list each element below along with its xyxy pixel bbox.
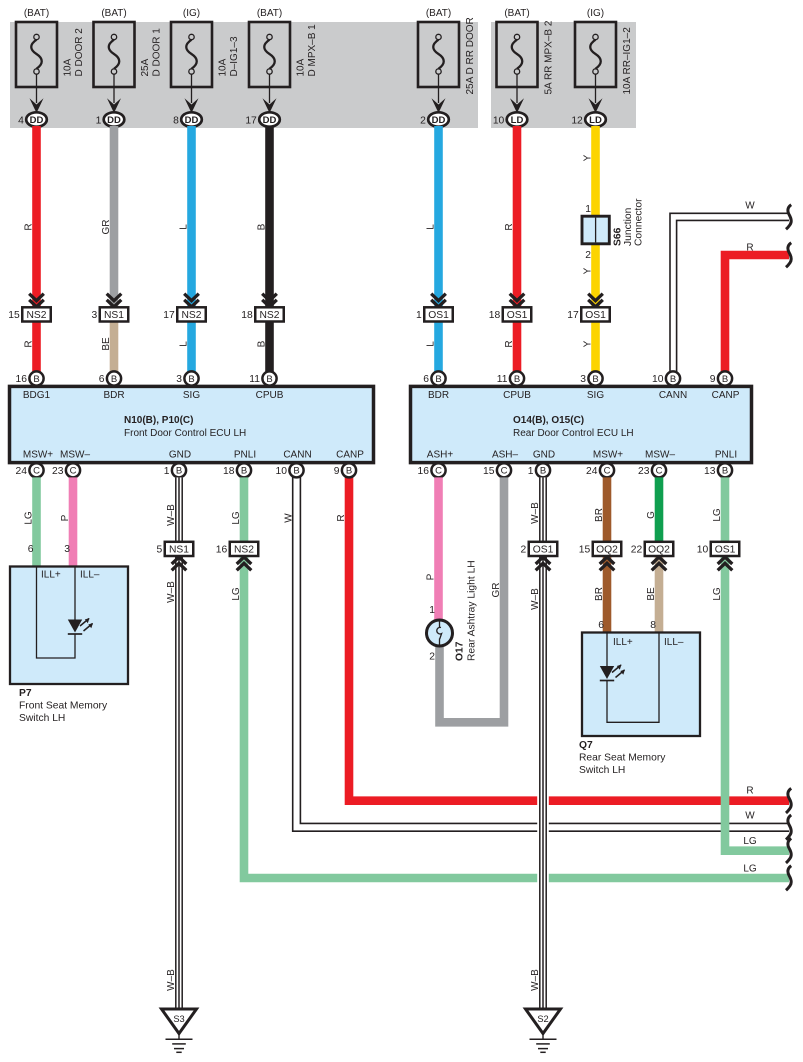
svg-text:Front Seat Memory: Front Seat Memory: [19, 701, 108, 712]
wire R from LD pin 10 to OS1: [513, 126, 522, 307]
svg-text:Y: Y: [583, 154, 594, 161]
wire R from DD pin 4 to NS2: [32, 126, 41, 307]
rear door control ECU O14/O15: [411, 386, 752, 462]
svg-text:LD: LD: [589, 115, 602, 126]
svg-text:15: 15: [483, 466, 495, 477]
svg-text:18: 18: [489, 310, 501, 321]
fuse 10A RR-IG1-2: [575, 8, 633, 95]
svg-text:PNLI: PNLI: [234, 450, 256, 461]
svg-text:17: 17: [163, 310, 175, 321]
svg-text:ILL–: ILL–: [80, 570, 100, 581]
svg-text:10A: 10A: [296, 58, 307, 76]
connector DD pin 17: [245, 112, 279, 126]
arrow from fuse 10A RR-IG1-2 to connector: [589, 74, 603, 113]
svg-text:1: 1: [528, 466, 534, 477]
front ECU pin 1 B GND: [164, 463, 186, 477]
switch Q7 Rear Seat Memory Switch LH: [582, 620, 700, 736]
svg-text:LD: LD: [511, 115, 524, 126]
svg-text:15: 15: [579, 545, 591, 556]
front ECU pin 6 B BDR: [99, 371, 121, 385]
fuse 10A D MPX-B 1: [249, 8, 318, 87]
svg-text:2: 2: [585, 250, 591, 261]
S66 label: [613, 198, 645, 246]
rear ECU pin 1 B GND: [528, 463, 550, 477]
svg-text:1: 1: [429, 605, 435, 616]
svg-text:C: C: [604, 466, 611, 477]
svg-text:11: 11: [497, 374, 508, 385]
svg-text:B: B: [670, 374, 676, 385]
svg-text:BDG1: BDG1: [23, 390, 51, 401]
page connector squiggle W: [786, 815, 791, 840]
front door control ECU N10/P10: [10, 386, 374, 462]
wire junction chevrons: [237, 557, 252, 570]
LED symbol in P7: [68, 620, 82, 633]
arrow from fuse 10A D MPX-B 1 to connector: [263, 74, 277, 113]
front ECU pin 3 B SIG: [176, 371, 198, 385]
wire W from front ECU CANN to right edge: [293, 477, 789, 831]
wire BR from OQ2 to Q7 pin 6: [603, 555, 612, 633]
page connector squiggle LG: [786, 866, 791, 891]
svg-text:N10(B), P10(C): N10(B), P10(C): [124, 415, 193, 426]
connector DD pin 2: [420, 112, 449, 126]
wire LG from front ECU MSW+ to P7 pin 6: [32, 477, 41, 567]
svg-text:S2: S2: [537, 1014, 548, 1024]
svg-text:W: W: [745, 811, 755, 822]
svg-text:W: W: [745, 201, 755, 212]
svg-text:W–B: W–B: [530, 502, 541, 524]
wire junction chevrons: [600, 557, 615, 570]
svg-text:D–IG1–3: D–IG1–3: [229, 36, 240, 76]
svg-text:NS2: NS2: [181, 310, 201, 321]
svg-text:R: R: [746, 243, 753, 254]
svg-text:8: 8: [173, 115, 179, 126]
svg-text:Switch LH: Switch LH: [19, 713, 65, 724]
svg-text:16: 16: [418, 466, 430, 477]
svg-text:11: 11: [249, 374, 260, 385]
svg-text:BE: BE: [101, 337, 112, 351]
svg-text:CANP: CANP: [712, 390, 740, 401]
svg-text:MSW+: MSW+: [23, 450, 53, 461]
svg-text:Switch LH: Switch LH: [579, 765, 625, 776]
wire W-B from rear ECU GND to OS1: [537, 477, 549, 542]
wire junction chevrons: [510, 294, 525, 307]
wire BE from OQ2 to Q7 pin 8: [655, 555, 664, 633]
svg-text:6: 6: [28, 544, 34, 555]
wire LG from front PNLI to NS2: [240, 477, 249, 542]
wire R from front ECU CANP to right edge: [349, 477, 789, 801]
svg-text:Rear Seat Memory: Rear Seat Memory: [579, 753, 666, 764]
fuse 25A D RR DOOR: [418, 8, 476, 95]
svg-text:L: L: [179, 341, 190, 347]
svg-text:Rear Ashtray Light LH: Rear Ashtray Light LH: [467, 560, 478, 661]
svg-text:22: 22: [631, 545, 643, 556]
svg-text:CANP: CANP: [336, 450, 364, 461]
fuse 10A D DOOR 2: [16, 8, 85, 87]
svg-text:OS1: OS1: [533, 545, 554, 556]
connector DD pin 8: [173, 112, 202, 126]
svg-text:6: 6: [598, 620, 604, 631]
svg-text:(BAT): (BAT): [101, 8, 126, 19]
front ECU pin 9 B CANP: [334, 463, 356, 477]
svg-text:OS1: OS1: [585, 310, 606, 321]
front ECU pin 23 C MSW-: [52, 463, 80, 477]
wire L from OS1 to rear ECU BDR: [434, 322, 443, 373]
wire junction chevrons: [262, 294, 277, 307]
svg-text:8: 8: [650, 620, 656, 631]
svg-text:2: 2: [420, 115, 426, 126]
svg-text:Front Door Control ECU LH: Front Door Control ECU LH: [124, 428, 246, 439]
svg-text:25A: 25A: [140, 58, 151, 76]
svg-text:B: B: [111, 374, 117, 385]
junction connector S66: [582, 216, 609, 244]
fuse 25A D DOOR 1: [94, 8, 163, 87]
svg-text:W–B: W–B: [166, 581, 177, 603]
svg-text:B: B: [540, 466, 546, 477]
svg-text:B: B: [293, 466, 299, 477]
connector OQ2 pin 22: [631, 542, 673, 556]
svg-text:GND: GND: [169, 450, 191, 461]
svg-text:18: 18: [241, 310, 253, 321]
svg-text:3: 3: [580, 374, 586, 385]
svg-text:B: B: [241, 466, 247, 477]
svg-text:O17: O17: [455, 641, 466, 661]
svg-text:LG: LG: [24, 511, 35, 525]
wire P from front ECU MSW- to P7 pin 3: [69, 477, 78, 567]
arrow from fuse 25A D DOOR 1 to connector: [107, 74, 121, 113]
svg-text:R: R: [24, 340, 35, 347]
arrow from fuse 25A D RR DOOR to connector: [432, 74, 446, 113]
page connector squiggle LG: [786, 838, 791, 863]
svg-text:23: 23: [52, 466, 64, 477]
wire GR from rear ECU ASH- to bulb O17 pin 2: [440, 477, 505, 722]
connector DD pin 1: [96, 112, 125, 126]
rear ECU pin 10 B CANN: [652, 371, 680, 385]
svg-text:R: R: [24, 223, 35, 230]
wire junction chevrons: [536, 557, 551, 570]
svg-text:B: B: [722, 466, 728, 477]
svg-text:W–B: W–B: [530, 969, 541, 991]
rear ECU pin 9 B CANP: [710, 371, 732, 385]
svg-text:4: 4: [18, 115, 24, 126]
svg-text:24: 24: [586, 466, 598, 477]
svg-text:6: 6: [99, 374, 105, 385]
rear ECU pin 23 C MSW-: [638, 463, 666, 477]
arrow from fuse 10A D DOOR 2 to connector: [30, 74, 44, 113]
svg-text:NS1: NS1: [104, 310, 124, 321]
svg-text:1: 1: [164, 466, 170, 477]
svg-text:GND: GND: [533, 450, 555, 461]
svg-text:W–B: W–B: [530, 588, 541, 610]
wire junction chevrons: [431, 294, 446, 307]
wire LG from front ECU PNLI down and to right edge: [244, 555, 789, 878]
connector LD pin 10: [493, 112, 527, 126]
svg-text:12: 12: [571, 115, 583, 126]
connector NS2 pin 18: [241, 307, 283, 321]
svg-text:10: 10: [652, 374, 664, 385]
svg-text:C: C: [435, 466, 442, 477]
svg-text:B: B: [266, 374, 272, 385]
wire R from OS1 to rear ECU CPUB: [513, 322, 522, 373]
svg-text:24: 24: [16, 466, 28, 477]
svg-text:BE: BE: [646, 587, 657, 601]
front ECU pin 11 B CPUB: [249, 371, 276, 385]
svg-text:B: B: [257, 223, 268, 230]
rear ECU pin 15 C ASH-: [483, 463, 511, 477]
svg-text:SIG: SIG: [587, 390, 604, 401]
ground S2: [526, 1009, 561, 1052]
svg-text:LG: LG: [743, 836, 757, 847]
page connector squiggle R: [786, 243, 791, 268]
svg-text:MSW–: MSW–: [645, 450, 675, 461]
wire P from rear ECU ASH+ to bulb O17 pin 1: [434, 477, 443, 621]
svg-text:(BAT): (BAT): [257, 8, 282, 19]
svg-text:3: 3: [92, 310, 98, 321]
svg-text:ILL–: ILL–: [664, 637, 684, 648]
svg-text:DD: DD: [263, 115, 277, 126]
svg-text:C: C: [656, 466, 663, 477]
LED symbol in Q7: [600, 666, 614, 679]
svg-text:17: 17: [245, 115, 257, 126]
rear ECU pin 24 C MSW+: [586, 463, 614, 477]
wire L from DD pin 2 to OS1: [434, 126, 443, 307]
wire W-B from front ECU GND to NS1: [173, 477, 185, 542]
rear ECU pin 13 B PNLI: [704, 463, 732, 477]
svg-text:ILL+: ILL+: [613, 637, 633, 648]
svg-text:16: 16: [216, 545, 228, 556]
connector LD pin 12: [571, 112, 605, 126]
svg-text:23: 23: [638, 466, 650, 477]
svg-text:P7: P7: [19, 688, 32, 699]
svg-text:NS2: NS2: [234, 545, 254, 556]
wire W from right edge to rear ECU CANN: [670, 213, 789, 374]
svg-text:DD: DD: [432, 115, 446, 126]
wire GR from DD pin 1 to NS1: [110, 126, 119, 307]
connector NS1 pin 3: [92, 307, 129, 321]
connector OS1 pin 1: [416, 307, 453, 321]
rear ECU pin 11 B CPUB: [497, 371, 524, 385]
connector NS1 pin 5: [157, 542, 194, 556]
rear ECU pin 3 B SIG: [580, 371, 602, 385]
svg-text:PNLI: PNLI: [715, 450, 737, 461]
svg-text:W: W: [284, 513, 295, 523]
svg-text:C: C: [70, 466, 77, 477]
svg-text:CANN: CANN: [659, 390, 687, 401]
wire junction chevrons: [29, 294, 44, 307]
connector OQ2 pin 15: [579, 542, 621, 556]
wire W-B from OS1 to ground S2: [537, 555, 549, 1009]
svg-text:LG: LG: [231, 587, 242, 601]
svg-text:3: 3: [176, 374, 182, 385]
svg-text:C: C: [33, 466, 40, 477]
svg-text:9: 9: [334, 466, 340, 477]
wire LG from rear ECU PNLI down and to right edge: [725, 555, 789, 851]
svg-text:17: 17: [567, 310, 579, 321]
svg-text:2: 2: [521, 545, 527, 556]
svg-text:L: L: [179, 224, 190, 230]
svg-text:Rear Door Control ECU LH: Rear Door Control ECU LH: [513, 428, 634, 439]
svg-text:BR: BR: [594, 508, 605, 522]
svg-text:B: B: [188, 374, 194, 385]
wire Y from OS1 to rear ECU SIG: [591, 322, 600, 373]
svg-text:1: 1: [585, 204, 591, 215]
svg-text:Y: Y: [583, 267, 594, 274]
svg-text:OQ2: OQ2: [596, 545, 618, 556]
svg-text:2: 2: [429, 652, 435, 663]
wire B from DD pin 17 to NS2: [265, 126, 274, 307]
front ECU pin 10 B CANN: [276, 463, 304, 477]
svg-text:5: 5: [157, 545, 163, 556]
svg-text:DD: DD: [185, 115, 199, 126]
svg-text:10: 10: [493, 115, 505, 126]
svg-text:L: L: [426, 341, 437, 347]
svg-text:OS1: OS1: [715, 545, 736, 556]
svg-text:10A: 10A: [218, 58, 229, 76]
svg-text:13: 13: [704, 466, 716, 477]
svg-text:LG: LG: [743, 864, 757, 875]
arrow from fuse 5A RR MPX-B 2 to connector: [510, 74, 524, 113]
svg-text:S3: S3: [173, 1014, 184, 1024]
svg-text:B: B: [435, 374, 441, 385]
connector NS2 pin 15: [8, 307, 50, 321]
fuse block band left: [10, 22, 478, 128]
svg-text:R: R: [336, 514, 347, 521]
svg-text:C: C: [501, 466, 508, 477]
rear ECU pin 6 B BDR: [423, 371, 445, 385]
svg-text:CPUB: CPUB: [503, 390, 531, 401]
front ECU pin 16 B BDG1: [16, 371, 44, 385]
arrow from fuse 10A D-IG1-3 to connector: [185, 74, 199, 113]
svg-text:P: P: [426, 573, 437, 580]
svg-text:CPUB: CPUB: [256, 390, 284, 401]
svg-text:R: R: [504, 340, 515, 347]
svg-text:(BAT): (BAT): [504, 8, 529, 19]
svg-text:OS1: OS1: [507, 310, 528, 321]
svg-text:MSW–: MSW–: [60, 450, 90, 461]
svg-text:10: 10: [276, 466, 288, 477]
svg-text:B: B: [33, 374, 39, 385]
svg-text:NS2: NS2: [259, 310, 279, 321]
svg-text:OS1: OS1: [428, 310, 449, 321]
rear ECU pin 16 C ASH+: [418, 463, 446, 477]
svg-text:B: B: [722, 374, 728, 385]
connector OS1 pin 2: [521, 542, 558, 556]
connector NS2 pin 16: [216, 542, 258, 556]
wire BE from NS1 to front ECU BDR: [110, 322, 119, 373]
wire junction chevrons: [718, 557, 733, 570]
svg-text:B: B: [346, 466, 352, 477]
svg-text:BDR: BDR: [428, 390, 449, 401]
svg-text:15: 15: [8, 310, 20, 321]
svg-text:L: L: [426, 224, 437, 230]
svg-text:BR: BR: [594, 587, 605, 601]
svg-text:MSW+: MSW+: [593, 450, 623, 461]
svg-text:6: 6: [423, 374, 429, 385]
connector NS2 pin 17: [163, 307, 205, 321]
svg-text:LG: LG: [712, 587, 723, 601]
wire LG from rear PNLI to OS1: [721, 477, 730, 542]
svg-text:DD: DD: [107, 115, 121, 126]
svg-text:16: 16: [16, 374, 28, 385]
svg-text:5A RR MPX–B 2: 5A RR MPX–B 2: [544, 20, 555, 94]
svg-text:1: 1: [416, 310, 422, 321]
wire G from rear ECU MSW- to OQ2: [655, 477, 664, 542]
svg-text:GR: GR: [101, 220, 112, 235]
svg-text:S66: S66: [613, 227, 624, 246]
fuse 10A D-IG1-3: [171, 8, 240, 87]
svg-text:GR: GR: [491, 583, 502, 598]
svg-text:10A RR–IG1–2: 10A RR–IG1–2: [622, 27, 633, 95]
svg-text:G: G: [646, 511, 657, 519]
svg-text:DD: DD: [30, 115, 44, 126]
svg-text:R: R: [746, 786, 753, 797]
switch P7 Front Seat Memory Switch LH: [10, 544, 128, 684]
svg-text:D DOOR 2: D DOOR 2: [74, 28, 85, 77]
svg-text:B: B: [257, 340, 268, 347]
svg-text:Junction: Junction: [623, 207, 634, 246]
svg-text:1: 1: [96, 115, 102, 126]
wire R from right edge to rear ECU CANP: [725, 255, 789, 372]
svg-text:B: B: [514, 374, 520, 385]
svg-text:ASH+: ASH+: [427, 450, 454, 461]
svg-text:Connector: Connector: [634, 198, 645, 246]
svg-text:R: R: [504, 223, 515, 230]
lamp O17 Rear Ashtray Light LH: [427, 620, 453, 646]
ground S3: [162, 1009, 197, 1052]
O17 label: [455, 560, 478, 661]
page connector squiggle R: [786, 788, 791, 813]
svg-text:(IG): (IG): [587, 8, 604, 19]
svg-text:NS2: NS2: [26, 310, 46, 321]
svg-text:BDR: BDR: [103, 390, 124, 401]
svg-text:(IG): (IG): [183, 8, 200, 19]
svg-text:10A: 10A: [63, 58, 74, 76]
wire BR from rear ECU MSW+ to OQ2: [603, 477, 612, 542]
svg-text:P: P: [60, 514, 71, 521]
svg-text:LG: LG: [712, 508, 723, 522]
svg-text:W–B: W–B: [166, 504, 177, 526]
svg-text:ASH–: ASH–: [492, 450, 519, 461]
wire W-B from NS1 to ground S3: [173, 555, 185, 1009]
svg-text:NS1: NS1: [169, 545, 189, 556]
svg-text:(BAT): (BAT): [24, 8, 49, 19]
svg-text:Q7: Q7: [579, 740, 593, 751]
front ECU pin 24 C MSW+: [16, 463, 44, 477]
wire R from NS2 to front ECU BDG1: [32, 322, 41, 373]
connector OS1 pin 17: [567, 307, 609, 321]
svg-text:OQ2: OQ2: [648, 545, 670, 556]
svg-text:3: 3: [64, 544, 70, 555]
connector OS1 pin 10: [697, 542, 739, 556]
wire L from NS2 to front ECU SIG: [187, 322, 196, 373]
svg-text:ILL+: ILL+: [41, 570, 61, 581]
svg-text:D DOOR 1: D DOOR 1: [152, 28, 163, 77]
svg-text:Y: Y: [583, 340, 594, 347]
svg-text:W–B: W–B: [166, 969, 177, 991]
svg-text:D MPX–B 1: D MPX–B 1: [307, 24, 318, 77]
wire B from NS2 to front ECU CPUB: [265, 322, 274, 373]
svg-text:O14(B), O15(C): O14(B), O15(C): [513, 415, 584, 426]
front ECU pin 18 B PNLI: [223, 463, 251, 477]
wire junction chevrons: [184, 294, 199, 307]
wire junction chevrons: [172, 557, 187, 570]
svg-text:(BAT): (BAT): [426, 8, 451, 19]
svg-text:9: 9: [710, 374, 716, 385]
svg-text:CANN: CANN: [283, 450, 311, 461]
svg-text:B: B: [592, 374, 598, 385]
svg-text:10: 10: [697, 545, 709, 556]
connector OS1 pin 18: [489, 307, 531, 321]
wire junction chevrons: [588, 294, 603, 307]
